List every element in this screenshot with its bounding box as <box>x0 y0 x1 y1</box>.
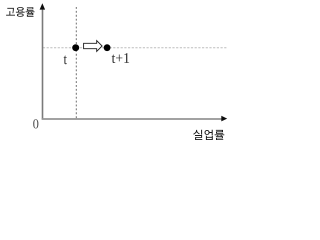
block arrow from t to t+1 <box>84 41 103 52</box>
vertical dotted guide line through point t <box>75 7 77 118</box>
x-axis <box>42 118 223 120</box>
label t+1 <box>112 53 129 63</box>
x-axis label 실업률 (unemployment rate) <box>193 130 224 140</box>
y-axis label 고용률 (employment rate) <box>6 7 34 17</box>
x-axis arrowhead <box>221 116 227 122</box>
point at time t+1 <box>104 44 111 51</box>
origin label 0 <box>33 119 38 128</box>
y-axis <box>42 6 44 120</box>
label t <box>64 56 67 65</box>
horizontal dotted guide line at employment level <box>43 47 227 49</box>
point at time t <box>72 44 79 51</box>
y-axis arrowhead <box>40 3 46 9</box>
